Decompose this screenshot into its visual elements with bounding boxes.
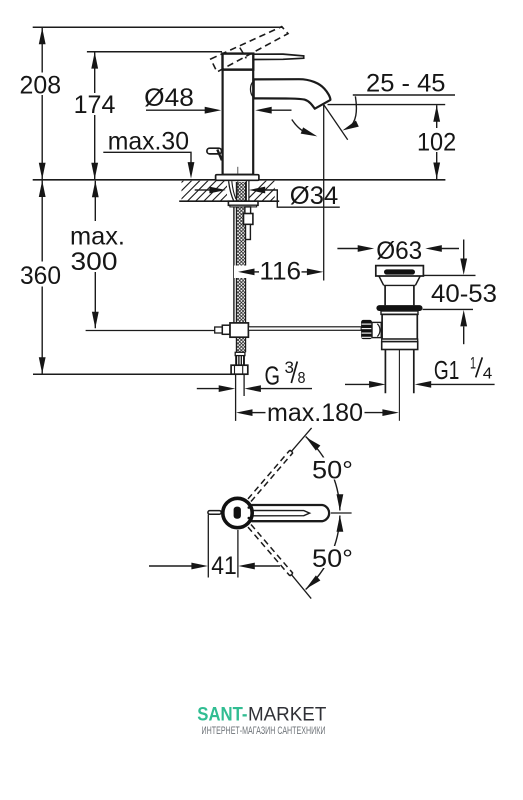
25-45 label underline (353, 94, 455, 96)
drain locknut (382, 342, 418, 350)
svg-text:Ø34: Ø34 (290, 182, 338, 210)
top view: lower swing lever dashed outline (248, 525, 293, 576)
dimension G1 1/4 arrows (345, 381, 495, 388)
dimension 40-53 verticals (460, 240, 467, 345)
hose bend curves in deck hole (229, 181, 234, 201)
horizontal pop-up rod (248, 327, 361, 331)
faucet centerline (237, 167, 239, 196)
braided supply hose segment 2 (236, 278, 245, 323)
lever handle (horizontal) (254, 54, 304, 59)
mounting washer under deck (228, 201, 258, 205)
hose knurled collar (235, 356, 245, 366)
40-53 top extension line (424, 274, 476, 276)
svg-text:41: 41 (211, 552, 237, 580)
hose hex nut G3/8 (231, 365, 248, 374)
lever raised position inner dash (240, 48, 247, 59)
dimension max.300 line (66, 181, 126, 329)
deck hatching right (244, 179, 293, 203)
label G3/8 (265, 358, 306, 391)
pop-up pull knob stem (217, 150, 222, 161)
40-53 bottom extension line (423, 308, 474, 310)
spout tip vertical extension line (323, 105, 325, 281)
top view: lever centerline extension (331, 512, 352, 514)
drain neck walls (385, 285, 414, 305)
dimension 360 line (18, 181, 63, 374)
drain centerline (398, 338, 400, 421)
svg-text:4: 4 (483, 365, 493, 382)
svg-text:Ø63: Ø63 (376, 237, 422, 265)
shank tube lines in deck hole (245, 181, 247, 201)
drain plug top lens (384, 269, 415, 274)
drain tailpipe (385, 350, 413, 394)
svg-text:SANT-: SANT- (197, 703, 247, 725)
hose ferrule (235, 352, 245, 355)
label G1 1/4 (434, 354, 493, 386)
mounting nut (244, 214, 253, 225)
top view: upper swing lever dashed outline (248, 450, 293, 501)
spout (254, 79, 331, 109)
top view: dot lower (248, 517, 251, 520)
svg-text:G: G (265, 361, 281, 391)
svg-text:1: 1 (470, 354, 476, 373)
svg-text:50°: 50° (312, 545, 353, 573)
dimension diameter 48 arrows (146, 107, 292, 114)
reference line top of cap (174 extent) (87, 51, 222, 53)
pop-up rod level extension line (max.300) (86, 330, 215, 332)
25-45 curved leader arrow B (292, 120, 319, 140)
braided supply hose segment 3 (236, 337, 245, 352)
mounting washer lip (230, 205, 257, 207)
svg-text:3: 3 (285, 358, 295, 377)
drain plug cap (376, 266, 424, 276)
dimension diameter 34 arrows and leader (195, 187, 340, 208)
pop-up rod clamp on hose (230, 323, 248, 337)
svg-text:50°: 50° (312, 457, 353, 485)
spout-body joint arc (250, 81, 253, 97)
mounting stud lower step (246, 224, 251, 239)
drain body (382, 314, 417, 339)
drain body bottom ring (382, 339, 418, 342)
svg-text:25 - 45: 25 - 45 (366, 69, 446, 97)
top view: dot upper (248, 506, 251, 509)
svg-text:8: 8 (298, 370, 306, 387)
connection pipe G3/8 left edge and max.180 extension (235, 374, 237, 421)
top view: pop-up rod (left) (208, 511, 221, 515)
drain neck ridge (384, 284, 416, 286)
top view: 41 right extension line (circle centerline) (237, 530, 239, 578)
svg-text:102: 102 (417, 129, 456, 157)
svg-text:360: 360 (20, 262, 61, 290)
25-45 curved leader arrow A (341, 96, 359, 133)
base plate (216, 175, 259, 181)
lever raised position (dashed) (211, 27, 288, 72)
svg-text:Ø48: Ø48 (144, 84, 194, 112)
pop-up rod end fitting 1 (215, 327, 223, 333)
svg-text:208: 208 (20, 71, 62, 99)
reference line top of lever (208 extent) (33, 26, 283, 28)
drain washer below flange (381, 311, 418, 314)
braided supply hose segment 1 (236, 182, 245, 266)
svg-text:G1: G1 (434, 355, 459, 385)
svg-text:300: 300 (71, 248, 118, 276)
dimension max.180 arrows (236, 409, 399, 416)
bottom reference line (360 extent) (33, 373, 231, 375)
svg-text:MARKET: MARKET (248, 703, 326, 725)
dimension 174 line (72, 52, 117, 179)
top view: body circle (223, 498, 252, 527)
mounting stud (245, 207, 251, 224)
drain flange (black band) (376, 305, 422, 311)
dimension diameter 63 arrows (337, 245, 459, 252)
cartridge cap (223, 54, 254, 70)
top view: lever inner slot (253, 511, 310, 516)
top view: cartridge D mark (234, 507, 241, 519)
50 degree arc lower (304, 515, 356, 591)
deck hatching left (161, 179, 242, 203)
svg-text:116: 116 (259, 257, 301, 285)
faucet body cylinder (223, 70, 254, 175)
top view: lever stadium (252, 505, 330, 521)
svg-text:max.: max. (70, 223, 125, 251)
dimension 208 line (18, 28, 63, 179)
dimension 102 line (414, 105, 459, 179)
deck surface reference line (33, 179, 446, 181)
drain knurled knob (361, 320, 372, 339)
aerator angle diagonal line (324, 105, 348, 140)
dimension 41 arrows (149, 563, 280, 570)
svg-text:max.30: max.30 (108, 128, 189, 156)
pop-up rod vertical (233, 207, 235, 323)
connection pipe G3/8 right edge (243, 374, 245, 396)
svg-text:40-53: 40-53 (431, 280, 497, 308)
svg-text:174: 174 (74, 91, 116, 119)
deck bottom edge (179, 200, 279, 202)
top view: 41 left extension line (207, 515, 209, 578)
svg-text:ИНТЕРНЕТ-МАГАЗИН САНТЕХНИКИ: ИНТЕРНЕТ-МАГАЗИН САНТЕХНИКИ (202, 725, 326, 737)
pop-up pull knob (side) (207, 148, 222, 154)
dimension 116 arrows (234, 266, 323, 279)
logo SANT-MARKET (197, 703, 326, 725)
102 top extension line (328, 104, 446, 106)
svg-text:max.180: max.180 (267, 399, 363, 427)
top view: upper 50 deg reference line (291, 428, 311, 452)
top view: lower 50 deg reference line (291, 575, 311, 599)
50 degree arc upper (304, 435, 356, 511)
drain knob connector arc (377, 324, 380, 337)
dimension max.30 leader (103, 152, 194, 178)
dimension G3/8 arrows (197, 385, 312, 392)
drain knob connector (372, 322, 381, 337)
pop-up rod end fitting 2 (222, 325, 230, 334)
drain neck taper (379, 276, 420, 285)
